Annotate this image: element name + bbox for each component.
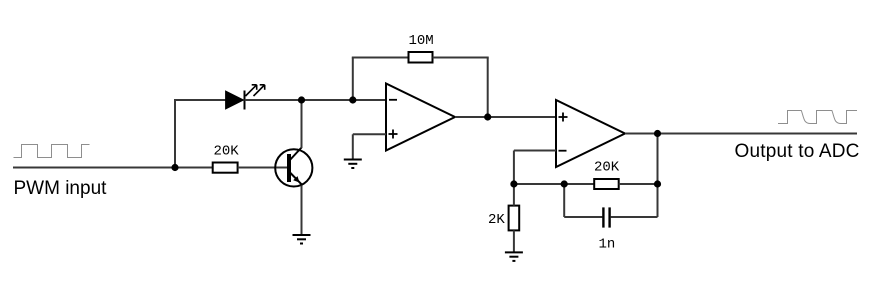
op-amp U1 minus sign [389, 99, 397, 101]
wire LED row left [174, 99, 226, 101]
wire U1 plus input [353, 133, 386, 135]
LED D1 light arrow 1 [246, 85, 257, 96]
wire feedback vertical right [487, 58, 489, 118]
svg-text:PWM input: PWM input [14, 178, 108, 199]
wire R1 to transistor base [238, 167, 287, 169]
wire feedback top right [433, 57, 489, 59]
transistor Q1 emitter arrow [293, 176, 299, 182]
svg-text:20K: 20K [594, 160, 620, 176]
node input junction [171, 164, 178, 171]
LED D1 cathode bar [244, 91, 246, 110]
op-amp U2 plus sign [559, 113, 568, 122]
wire R3 to ground [513, 230, 515, 252]
ground under U1 plus [344, 160, 362, 169]
op-amp U2 minus sign [559, 150, 567, 152]
resistor R1 20K body [213, 163, 238, 173]
op-amp U2 triangle [556, 100, 625, 167]
wire cap row left [564, 216, 602, 218]
transistor Q1 circle [275, 149, 312, 186]
wire node row to R3 [513, 184, 515, 206]
wire emitter down [301, 186, 303, 236]
LED D1 diode triangle [226, 91, 244, 109]
transistor Q1 base bar [287, 154, 291, 182]
wire cap branch right vertical [657, 134, 659, 218]
wire cap row right [611, 216, 658, 218]
resistor R4 20K body [594, 179, 619, 189]
svg-text:10M: 10M [409, 33, 434, 49]
ground under R3 [505, 252, 523, 261]
wire node row right [619, 183, 658, 185]
wire U2 minus input [514, 150, 556, 152]
svg-text:1n: 1n [599, 237, 616, 253]
svg-text:2K: 2K [488, 212, 505, 228]
transistor Q1 collector diagonal [289, 148, 302, 162]
wire cap branch left vertical [563, 184, 565, 217]
capacitor C1 plates [603, 207, 609, 227]
resistor R2 10M body [409, 52, 433, 63]
wire PWM input line [13, 167, 213, 169]
wire node row left [514, 183, 594, 185]
node collector junction [298, 96, 305, 103]
wire feedback top left [352, 57, 409, 59]
op-amp U1 plus sign [389, 130, 398, 139]
resistor R3 2K body [509, 206, 520, 231]
node feedback left junction [349, 96, 356, 103]
svg-text:20K: 20K [214, 144, 240, 160]
node U1 output junction [484, 113, 491, 120]
node cap branch junction [561, 180, 568, 187]
wire U1 output [455, 116, 556, 118]
transistor Q1 emitter diagonal [289, 172, 302, 185]
wire U2 minus down to node row [513, 151, 515, 185]
wire input junction up to LED row [174, 99, 176, 168]
wire collector up [301, 100, 303, 148]
wire feedback vertical left [352, 58, 354, 101]
ground under Q1 [293, 235, 311, 244]
output waveform glyph (filtered PWM) [778, 111, 857, 124]
wire LED to op-amp minus row [245, 99, 387, 101]
wire U1 plus to ground [352, 134, 354, 159]
node U2 output junction [654, 130, 661, 137]
node feedback right junction [654, 180, 661, 187]
node row left junction [510, 180, 517, 187]
op-amp U1 triangle [386, 84, 455, 151]
LED D1 light arrow 2 [254, 85, 265, 96]
input PWM waveform glyph [14, 145, 90, 158]
wire U2 output to ADC [625, 133, 857, 135]
svg-text:Output to ADC: Output to ADC [735, 141, 860, 162]
